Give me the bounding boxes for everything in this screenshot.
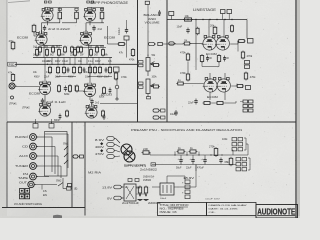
ladder wire 10 xyxy=(98,58,100,65)
PSU diamond 1 xyxy=(100,142,103,145)
wire R1 to rail xyxy=(59,8,61,11)
right output rect lower xyxy=(246,86,251,90)
jack CD xyxy=(30,143,37,150)
ladder wire 11 xyxy=(109,58,111,65)
rail top rect a xyxy=(221,10,226,14)
stack resistor c2 xyxy=(249,109,254,112)
wire R2 to rail xyxy=(101,8,103,11)
AudioNote logo underline xyxy=(257,215,295,217)
grid resistor left channel xyxy=(33,24,35,26)
PSU pill 2 xyxy=(107,143,115,147)
tube V3a xyxy=(39,83,50,94)
volume left resistor a xyxy=(139,82,144,85)
resistor row lower linestage 1 xyxy=(203,102,205,104)
phono input node circle xyxy=(11,96,14,99)
sheet right border xyxy=(295,0,297,218)
resistor row lower linestage 2 xyxy=(216,102,218,104)
hanging cap left of linestage xyxy=(159,10,161,12)
wire up from regulator to rail xyxy=(195,165,197,172)
balance left resistor b xyxy=(139,64,144,67)
cap 1u lower-right xyxy=(236,85,238,87)
jack TAPE OUT xyxy=(28,181,34,187)
left margin shading xyxy=(0,0,7,218)
psu ground symbols xyxy=(138,199,143,201)
input wire across divider xyxy=(162,43,183,45)
node small right col xyxy=(116,98,118,100)
SW2 bus xyxy=(62,178,64,189)
wire V2a cathode bar xyxy=(42,44,63,46)
ground rail left rect xyxy=(151,163,156,166)
right col rect y60 xyxy=(245,61,250,64)
bottom-left linestage rect 2 xyxy=(161,116,166,119)
coupling cap C3 xyxy=(42,98,44,100)
cap 470uF b xyxy=(204,158,206,160)
linestage B+ rail xyxy=(167,19,247,21)
bottom cluster link 1 xyxy=(212,102,216,104)
resistor right col upper xyxy=(132,48,134,50)
row3 fill res xyxy=(76,85,78,87)
rail junction a xyxy=(195,19,196,20)
resistor band upper 2 xyxy=(46,48,48,50)
jack TAPE IN xyxy=(30,173,37,180)
PSU cluster 2 resistors xyxy=(236,158,241,161)
resistor band lower 1 xyxy=(57,66,59,68)
stack resistor b xyxy=(243,105,248,108)
tube V6b xyxy=(217,79,230,92)
linestage input rect xyxy=(158,42,163,45)
I/O box right edge xyxy=(71,122,73,208)
B+ entry fuse xyxy=(169,12,174,16)
rail top rect b xyxy=(227,10,232,14)
wire lower band xyxy=(44,64,46,83)
regulator caps column xyxy=(185,180,190,184)
anode resistor R2 xyxy=(101,11,103,13)
balance left resistor a xyxy=(139,61,144,64)
E component at box edge xyxy=(68,184,72,188)
R2 top blob xyxy=(100,8,103,10)
psu cap ground stubs xyxy=(180,164,182,165)
tube V4a xyxy=(39,105,50,116)
resistor band lower 2 xyxy=(63,66,65,68)
jack TUNER xyxy=(30,163,37,170)
M2 PHONO underline xyxy=(168,206,189,208)
psu cap hang wires xyxy=(180,155,182,158)
lower cluster mini-rail b xyxy=(88,76,112,78)
lower cluster cap 1 xyxy=(67,67,69,69)
wire jack to V3a xyxy=(15,86,39,88)
main horizontal divider xyxy=(7,121,296,123)
cluster 2 bracket xyxy=(248,157,250,159)
cap 1u lower-left xyxy=(176,83,178,85)
right col cap chain wire top xyxy=(126,20,128,28)
resistor 470k right lower 1 xyxy=(245,72,247,74)
AudioNote logo box xyxy=(256,205,298,219)
sheet left border xyxy=(6,0,8,122)
linestage grid wire V5a xyxy=(190,43,203,45)
linestage rail res right xyxy=(231,24,233,26)
IO to PSU bridge rect xyxy=(80,155,84,158)
wire stack to edge xyxy=(240,101,243,103)
wire V6 anodes xyxy=(209,73,211,80)
resistor 470k mid-left lower xyxy=(187,73,189,75)
lower cluster cap 3 xyxy=(105,67,107,69)
grid feed V2a xyxy=(33,32,35,36)
cluster2 feed wire xyxy=(249,163,251,166)
node circle right col xyxy=(115,85,119,89)
PSU pill 13.8V xyxy=(114,185,122,189)
linestage B+ drop to V6 xyxy=(195,62,197,70)
linestage rail res mid xyxy=(197,27,199,29)
cap 50uF xyxy=(180,158,182,160)
band fill res 1 xyxy=(39,46,41,48)
rail wires xyxy=(174,152,176,156)
band fill res lower 3 xyxy=(94,66,96,68)
PSD label box xyxy=(8,62,17,66)
mid rail 1 xyxy=(33,57,112,59)
V3a extra res xyxy=(69,84,71,86)
cathode bypass cap V5a xyxy=(207,56,209,58)
wire mid y103 xyxy=(100,103,137,105)
selector bus wires xyxy=(36,136,52,138)
PSU box left edge xyxy=(84,122,86,216)
wire right upper xyxy=(230,43,238,45)
right col horizontal resistor xyxy=(117,43,119,45)
supply transformer circle A xyxy=(121,144,132,155)
balance pot wiper xyxy=(150,62,155,65)
right col rect y67 xyxy=(114,67,120,72)
upper cluster extra res 3 xyxy=(77,46,79,48)
wire right col vertical xyxy=(116,78,118,85)
wire rail to cluster xyxy=(232,150,234,155)
wire V2b cathode to rail xyxy=(88,46,90,58)
tube V2b xyxy=(80,34,91,45)
right col rect y65 xyxy=(245,65,250,68)
bridge rectifier box xyxy=(124,184,136,201)
wire V3b grid xyxy=(75,90,84,92)
row4 cap left xyxy=(59,114,61,116)
PSU diamond 2 xyxy=(100,149,103,152)
row4 mid res left xyxy=(66,110,68,112)
24R resistor xyxy=(142,152,144,154)
top rail right channel xyxy=(87,7,104,9)
diode pair a xyxy=(128,179,132,182)
linestage input connector xyxy=(149,42,155,45)
volume pot RV2 xyxy=(146,79,150,94)
output resistor xyxy=(67,187,72,191)
PSU pill 3 xyxy=(107,149,115,153)
linestage grid wire V6a xyxy=(185,83,204,85)
anode resistor R1 xyxy=(59,11,61,13)
cluster 1 bracket xyxy=(244,137,246,139)
stack resistor a xyxy=(243,100,248,103)
volume bottom mark xyxy=(147,97,151,99)
band fill res lower 2 xyxy=(79,66,81,68)
cap near 68k xyxy=(220,158,222,160)
volume pot wiper xyxy=(150,84,155,87)
upper cluster mini-rail a xyxy=(35,47,62,49)
tube V1a xyxy=(42,10,53,21)
row4 mid res right xyxy=(102,110,104,112)
I/O box bottom edge xyxy=(2,207,85,209)
input coupling 1u upper xyxy=(183,43,185,45)
divider balance/linestage xyxy=(166,0,168,122)
wire balance top xyxy=(147,30,149,56)
ladder wire 8 xyxy=(86,58,88,65)
PSU pill wires xyxy=(116,139,120,144)
bottom-left smudge xyxy=(53,215,62,218)
top-left faint diagonal xyxy=(8,1,30,3)
I/O top component 1 xyxy=(33,124,38,129)
cap 22uF xyxy=(195,99,197,101)
stack resistor b2 xyxy=(249,105,254,108)
volume wiper arrowhead xyxy=(150,85,153,88)
ladder wire 7 xyxy=(80,58,82,65)
rail extra dots xyxy=(51,64,52,65)
right margin shading xyxy=(297,0,300,218)
output wire to edge xyxy=(71,188,72,190)
upper cluster extra res 4 xyxy=(96,46,98,48)
tape ground resistors xyxy=(20,189,25,194)
IO to PSU bridge connector xyxy=(73,155,78,158)
linestage rail dots xyxy=(202,19,203,20)
title block box 2 xyxy=(207,203,257,216)
linestage cathode link xyxy=(201,62,203,67)
resistor band lower 3 xyxy=(73,66,75,68)
input 47k lower xyxy=(12,73,14,75)
regulator block xyxy=(160,183,174,195)
bridge output resistor pair xyxy=(139,186,141,188)
resistor 470k right upper xyxy=(242,51,244,53)
tube V1b xyxy=(84,10,95,21)
PSU pill 1 xyxy=(107,137,115,141)
tube V5b xyxy=(216,37,229,50)
270k resistor xyxy=(215,147,217,149)
resistor band lower 4 xyxy=(89,66,91,68)
SW1 wire out xyxy=(67,134,69,140)
bottom-left linestage pill 1 xyxy=(153,109,159,112)
resistor band lower 6 xyxy=(109,66,111,68)
bottom margin shading xyxy=(0,216,300,218)
balance top wire upper xyxy=(147,4,149,30)
stack resistor a2 xyxy=(249,100,254,103)
resistor 470k mid-left upper xyxy=(187,53,189,55)
ladder wire 4 xyxy=(63,58,65,65)
cathode cap V3a xyxy=(65,86,67,88)
tube V5a xyxy=(203,37,216,50)
tube V3b xyxy=(84,85,95,96)
1k resistor 1 xyxy=(177,151,179,153)
cap 10uF xyxy=(187,28,189,30)
wire under V1b xyxy=(86,22,104,24)
wire 18.9V node xyxy=(195,165,197,188)
ladder wire 9 xyxy=(92,58,94,65)
balance pot RV1 xyxy=(146,58,150,72)
right col chain wire bottom xyxy=(126,40,128,58)
top lead blob V1b xyxy=(87,1,90,3)
psu rail dots xyxy=(174,154,175,155)
balance right resistor xyxy=(152,64,154,66)
cap 470uF a xyxy=(192,158,194,160)
input resistor 47k xyxy=(12,41,14,43)
tube V4b xyxy=(86,107,97,118)
volume left resistor b xyxy=(139,86,144,89)
psu lower wires xyxy=(121,186,124,188)
cathode resistor V3a xyxy=(58,84,60,86)
resistor 470k right col xyxy=(115,72,117,74)
cluster1 feed wire xyxy=(246,143,248,145)
band fill res 2 xyxy=(71,46,73,48)
balance column top mark xyxy=(145,1,149,4)
I/O top component 2 xyxy=(49,124,54,129)
68k resistor xyxy=(230,157,232,159)
switch network outline xyxy=(45,132,68,177)
phono input jack xyxy=(9,83,15,89)
lower cluster mini-rail a xyxy=(56,76,76,78)
V3b cathode cap xyxy=(109,88,111,90)
resistor band upper 6 xyxy=(102,48,104,50)
linestage lower B+ wire xyxy=(195,20,197,63)
resistor band upper 4 xyxy=(74,48,76,50)
wire V2b cathode bar xyxy=(86,44,104,46)
coupling cap C4 xyxy=(91,99,93,101)
selector vertical bus 1 xyxy=(51,137,53,172)
resistor band upper 5 xyxy=(90,48,92,50)
ladder wire 2 xyxy=(51,58,53,65)
resistor band lower 5 xyxy=(99,66,101,68)
row4 cap right xyxy=(103,114,105,116)
right col chain cap xyxy=(126,28,128,30)
coupling cap C2 xyxy=(93,25,95,27)
wire right col upper linestage xyxy=(237,41,239,52)
band fill res lower 1 xyxy=(49,66,51,68)
band fill res 3 xyxy=(80,46,82,48)
rail series resistor 10k xyxy=(183,19,185,21)
linestage rail corner xyxy=(246,20,248,39)
tape wire xyxy=(34,184,57,186)
cathode bypass cap V5b xyxy=(224,56,226,58)
diode marks below xyxy=(139,195,141,197)
tube V6a xyxy=(204,79,217,92)
bottom-left linestage pill 2 xyxy=(153,116,159,119)
selector vertical bus 2 xyxy=(54,147,56,175)
switch outline xyxy=(67,140,69,168)
bottom-left linestage rect 1 xyxy=(161,109,166,112)
jack AUX xyxy=(30,153,37,160)
upper cluster extra res 1 xyxy=(52,46,54,48)
top rail left channel xyxy=(44,7,79,9)
ladder wire 6 xyxy=(74,58,76,65)
rail junction dots xyxy=(47,64,48,65)
PSU pill 4 xyxy=(107,155,115,159)
right col wire xyxy=(107,26,109,44)
PSU pill 0V xyxy=(114,196,122,200)
lower cluster cap 2 xyxy=(83,67,85,69)
right col chain rect xyxy=(124,36,129,40)
volume right resistor xyxy=(152,86,154,88)
wire V3b-V4b xyxy=(89,97,91,100)
PSU rail (phono B+) xyxy=(15,63,137,65)
wire 470k col xyxy=(187,62,189,73)
bottom cluster link 2 xyxy=(225,102,236,104)
wire bridge to resistors xyxy=(136,187,140,189)
resistor 20k xyxy=(214,26,216,28)
R1 top blob xyxy=(58,8,61,10)
balance wiper arrowhead xyxy=(150,63,153,66)
V3b cathode res xyxy=(103,86,105,88)
PSU main rail xyxy=(150,154,233,156)
top lead blob V1a xyxy=(44,1,47,3)
wire anode rail right xyxy=(89,7,91,10)
output cap right upper xyxy=(237,40,239,42)
PSU ground rail xyxy=(152,164,233,166)
ladder wire 1 xyxy=(44,58,46,65)
wire right lower linestage xyxy=(231,85,237,87)
wire rail to V5 anodes xyxy=(208,20,210,38)
ladder wire 3 xyxy=(57,58,59,65)
wire V2a cathode to rail xyxy=(43,46,45,58)
title block box 1 xyxy=(158,203,207,216)
wire V1b-V2b xyxy=(89,21,91,25)
wire V1a-V2a xyxy=(47,21,49,25)
jack PHONO xyxy=(30,134,37,141)
resistor band upper 1 xyxy=(36,48,38,50)
wire anode rail left xyxy=(47,7,49,10)
R1b bottom wire xyxy=(76,20,78,23)
stack resistor c xyxy=(243,109,248,112)
coupling cap C1 xyxy=(44,25,46,27)
1k resistor 2 xyxy=(189,151,191,153)
wire under V1a xyxy=(42,22,61,24)
selector vertical bus 3 xyxy=(57,156,59,176)
wire V3a-V4a xyxy=(44,95,46,105)
PSU cluster 1 resistors xyxy=(232,138,237,141)
tube V2a xyxy=(36,34,47,45)
resistor band upper 3 xyxy=(58,48,60,50)
supply transformer circle B xyxy=(124,151,135,162)
R1b top blob xyxy=(75,8,78,10)
output box right upper xyxy=(248,39,254,44)
ladder wire 5 xyxy=(69,58,71,65)
selector vertical bus 4 xyxy=(60,166,62,178)
IO top stubs xyxy=(35,119,37,124)
cathode resistor V5a xyxy=(201,54,203,56)
input pill upper xyxy=(169,42,175,45)
upper cluster mini-rail b xyxy=(72,47,106,49)
divider phono/balance xyxy=(137,0,139,122)
anode resistor R1b xyxy=(76,11,78,13)
upper cluster extra res 2 xyxy=(64,46,66,48)
wire lower linestage xyxy=(209,92,211,100)
